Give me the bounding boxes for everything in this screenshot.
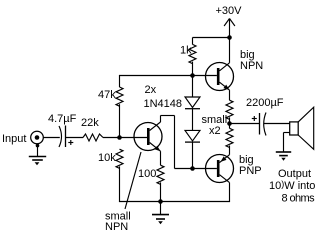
resistor 100 (157, 165, 164, 201)
wire node B to Q2 base (193, 75, 217, 77)
wire node C to C2 (230, 123, 260, 125)
svg-text:8 ohms: 8 ohms (282, 193, 316, 205)
wire C1 to R22k (66, 137, 84, 139)
svg-text:Input: Input (2, 133, 26, 145)
ground at input jack (29, 144, 46, 166)
node A junction (117, 135, 122, 140)
input jack J1 (31, 131, 44, 144)
transistor Q2 big NPN (206, 63, 234, 91)
node E ground junction (158, 199, 163, 204)
resistor small x2 upper (226, 100, 233, 119)
svg-text:22k: 22k (81, 117, 99, 129)
wire jack to C1 (43, 137, 60, 139)
node B junction (190, 73, 195, 78)
wire diode chain top (192, 76, 194, 98)
diode D1 1N4148 (185, 97, 200, 109)
ground at speaker (276, 152, 291, 161)
wire Q1 collector jog to node D (161, 116, 193, 169)
resistor 47k (116, 76, 123, 138)
wire 22k to node A (103, 137, 120, 139)
wire D1 to D2 (192, 109, 194, 131)
wire Q2 emitter down (229, 90, 231, 100)
resistor small x2 lower (226, 128, 233, 147)
resistor 1k (189, 38, 196, 76)
ground at bottom rail (152, 202, 169, 225)
wire node D to Q3 base (193, 168, 217, 170)
svg-text:+30V: +30V (216, 5, 243, 17)
svg-text:2200µF: 2200µF (246, 97, 284, 109)
wire C2 to speaker (264, 123, 290, 125)
svg-text:NPN: NPN (240, 60, 263, 72)
svg-text:1k: 1k (180, 45, 192, 57)
node C output junction (227, 121, 232, 126)
wire speaker to ground (284, 133, 290, 153)
wire to Q3 emitter (229, 146, 231, 155)
wire +30V rail (193, 37, 230, 39)
svg-text:NPN: NPN (105, 221, 128, 233)
node D junction (190, 166, 195, 171)
svg-text:47k: 47k (98, 89, 116, 101)
speaker LS1 (290, 107, 314, 149)
svg-text:10)W into: 10)W into (269, 179, 315, 192)
power +30V symbol (224, 19, 235, 40)
wire node A to Q1 base (120, 137, 148, 139)
svg-text:x2: x2 (209, 125, 221, 137)
wire D2 to node D (192, 142, 194, 168)
wire Q3 collector to bottom rail (229, 183, 231, 202)
resistor 22k (83, 134, 103, 141)
pointer line small NPN (125, 152, 141, 209)
svg-text:4.7µF: 4.7µF (48, 113, 77, 125)
wire top rail node A feedback (119, 75, 193, 77)
svg-text:PNP: PNP (239, 165, 262, 177)
wire Q1 emitter to R100 (160, 151, 162, 165)
wire to node C (229, 117, 231, 128)
transistor Q1 small NPN (134, 122, 162, 151)
transistor Q3 big PNP (206, 155, 234, 183)
svg-text:1N4148: 1N4148 (144, 98, 183, 110)
bottom rail wire (119, 201, 230, 203)
resistor 10k (116, 149, 123, 201)
svg-text:2x: 2x (145, 84, 157, 96)
svg-text:10k: 10k (98, 152, 116, 164)
diode D2 1N4148 (185, 130, 200, 142)
wire Q2 collector to +30V (229, 38, 231, 63)
svg-text:100: 100 (138, 168, 156, 180)
capacitor C2 2200uF (252, 113, 266, 136)
capacitor C1 4.7uF (59, 126, 73, 148)
